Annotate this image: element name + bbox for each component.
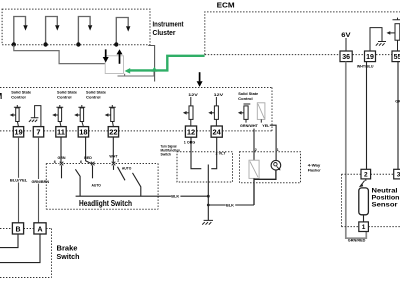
headlight switch box [46, 164, 158, 210]
svg-text:RED: RED [84, 155, 92, 160]
wire: pin11 to headlight GRN [60, 137, 62, 164]
svg-text:Control: Control [238, 96, 253, 101]
headlight switch internals [62, 165, 141, 196]
svg-text:19: 19 [14, 128, 22, 137]
svg-text:Flasher: Flasher [308, 167, 321, 172]
svg-text:12V: 12V [214, 92, 224, 97]
wire: ECM 55 to sensor 3 [397, 62, 399, 170]
ECM pin 55 [392, 51, 400, 62]
svg-text:1: 1 [277, 148, 279, 152]
wire: pin18 to headlight RED [86, 137, 92, 164]
sensor pin 1 [359, 222, 369, 232]
ground inside ECM above pin 19 [370, 28, 386, 51]
svg-text:Switch: Switch [161, 153, 172, 157]
ghost relay contact box in module [257, 103, 265, 123]
wire: 6V to pin 36 [345, 38, 347, 51]
brake pin A [34, 223, 46, 234]
svg-text:AUTO: AUTO [122, 166, 131, 171]
svg-text:GRN/RED: GRN/RED [348, 237, 366, 242]
svg-text:B: B [15, 226, 20, 233]
wire label BLK (flasher) [226, 203, 236, 208]
ground (turn signal circuit) [202, 220, 213, 224]
svg-text:18: 18 [79, 128, 87, 137]
neutral position sensor label [372, 187, 400, 208]
wire: flasher to ground junction (BLK) [208, 204, 254, 206]
svg-text:12: 12 [187, 128, 195, 137]
svg-text:19: 19 [366, 54, 374, 61]
svg-text:2: 2 [255, 148, 257, 152]
sensor variable arrow [359, 179, 366, 187]
svg-text:2: 2 [364, 172, 368, 179]
module pin 18 [78, 127, 88, 137]
node: BLK junction [207, 204, 210, 207]
ECM pin 19 [365, 51, 376, 62]
headlight pin x RED [91, 162, 95, 166]
svg-text:55: 55 [394, 54, 400, 61]
node: cluster junction 4 [114, 42, 118, 46]
svg-text:6: 6 [80, 160, 82, 164]
svg-text:YEL: YEL [262, 123, 269, 128]
svg-text:BLU/YEL: BLU/YEL [10, 178, 28, 183]
arrow: down into connector [103, 49, 109, 62]
svg-text:A: A [37, 226, 42, 233]
svg-text:6: 6 [54, 160, 56, 164]
neutral position sensor box [342, 174, 400, 226]
wire: pin19 to brake B (BLU/YEL) [18, 137, 20, 223]
module (BCM) box [0, 88, 272, 131]
turn signal switch pole [207, 165, 209, 197]
solid state control symbol above pin 22 [105, 105, 116, 127]
wire: ECM 36 to sensor 1 (GRN/RED) [346, 62, 367, 239]
module pin 12 [185, 126, 196, 137]
6V supply label [341, 33, 350, 39]
svg-text:Sensor: Sensor [372, 202, 398, 209]
svg-text:1: 1 [362, 224, 366, 231]
wire: gray return to green junction [118, 71, 155, 77]
turn signal multifunction switch label [161, 144, 181, 156]
module pin 11 [56, 127, 66, 137]
solid state control inside ECM above pin 55 [387, 18, 400, 51]
sensor resistive element [359, 188, 369, 222]
arrow: green left arrowhead [125, 68, 131, 74]
ECM box [205, 12, 400, 55]
node: cluster junction 1 [12, 42, 16, 46]
4-way flasher box [240, 152, 301, 183]
svg-text:Neutral: Neutral [372, 187, 398, 194]
ECM pin 36 [340, 51, 352, 62]
turn signal multifunction switch box [177, 152, 233, 182]
brake switch label [57, 245, 80, 260]
brake pin B [12, 223, 23, 234]
svg-text:M: M [0, 92, 3, 101]
arrow: down into module [197, 72, 203, 87]
arrow: up out of connector [117, 49, 123, 64]
svg-text:Control: Control [86, 94, 101, 99]
solid state control label 3 [86, 89, 107, 99]
svg-text:ECM: ECM [217, 1, 235, 10]
12V source symbol above pin 12 [183, 97, 193, 127]
solid state control symbol (flasher driver) [238, 104, 250, 123]
wire: stepped from cluster junction 1 [14, 45, 105, 64]
connector outline box (ghost) [105, 56, 123, 74]
svg-text:Switch: Switch [57, 254, 80, 261]
wire: pin7 to brake A (GRN/BRN) [38, 137, 40, 223]
solid state control symbol above pin 18 [74, 105, 85, 127]
arrow: green up arrowhead mid [151, 67, 157, 72]
instrument cluster label [153, 21, 185, 37]
module pin 22 [108, 127, 118, 137]
ground symbol above pin 7 [29, 106, 41, 127]
indicator lamp L1 [14, 17, 28, 45]
svg-text:2: 2 [117, 159, 119, 163]
node: cluster junction 3 [76, 42, 80, 46]
node: cluster junction 2 [43, 42, 47, 46]
wire: cluster corner down to green junction [148, 46, 154, 82]
wire: green to ECM [128, 56, 205, 71]
svg-text:GRN: GRN [58, 155, 66, 160]
indicator lamp L3 [78, 17, 92, 45]
svg-text:Position: Position [372, 194, 400, 201]
svg-text:AUTO: AUTO [92, 183, 101, 188]
svg-text:WHT: WHT [109, 153, 118, 158]
instrument cluster box [2, 9, 150, 45]
wire: module YEL to flasher pin1 [270, 125, 276, 160]
node: bus junction [207, 195, 210, 198]
svg-text:BLK: BLK [226, 203, 234, 208]
wire: pin12 to turn signal switch [191, 137, 201, 169]
svg-text:Headlight Switch: Headlight Switch [79, 198, 132, 208]
svg-text:GRN/WHT: GRN/WHT [240, 123, 258, 128]
solid state control label 4 [238, 91, 259, 101]
ECM label [217, 1, 235, 10]
wire: brake A internal [0, 234, 40, 263]
sensor pin 3 [394, 169, 400, 179]
svg-text:Control: Control [11, 94, 26, 99]
indicator lamp L2 [46, 17, 60, 45]
4-way flasher label [308, 163, 321, 173]
solid state control symbol above pin 11 [52, 105, 63, 127]
solid state control label 2 [57, 89, 78, 99]
wire: module to flasher pin2 [253, 129, 255, 161]
wire: headlight bus to BLK junction [76, 195, 209, 197]
module pin 19 [13, 127, 23, 137]
svg-text:Cluster: Cluster [153, 30, 176, 37]
wire: ECM 19 to sensor 2 [366, 62, 368, 170]
svg-text:Instrument: Instrument [153, 21, 185, 28]
solid state control symbol above pin 19 [10, 105, 21, 127]
svg-text:GRN/: GRN/ [395, 99, 400, 104]
svg-text:24: 24 [213, 128, 222, 137]
wire: pin22 to headlight WHT [112, 137, 114, 164]
solid state control label 1 [11, 89, 32, 99]
sensor pin 2 [361, 169, 371, 179]
headlight pin x GRN [60, 162, 64, 166]
module pin 24 [211, 126, 222, 137]
svg-text:11: 11 [57, 128, 65, 137]
wire: brake B internal [0, 234, 18, 248]
brake switch box [0, 229, 52, 278]
svg-text:Brake: Brake [57, 245, 78, 252]
svg-text:22: 22 [109, 128, 117, 137]
flasher lamp [271, 160, 281, 170]
svg-text:12V: 12V [188, 92, 198, 97]
indicator lamp L4 [116, 18, 130, 45]
headlight pin x WHT [112, 162, 116, 166]
module pin 7 [33, 127, 43, 137]
svg-text:Control: Control [57, 94, 72, 99]
wire: pin24 to turn signal switch [211, 137, 216, 169]
flasher relay contact [249, 160, 259, 178]
wire label GRN/BRN [31, 179, 50, 184]
svg-text:WHT/BLU: WHT/BLU [357, 64, 374, 69]
wire: pole to ground [207, 196, 209, 220]
svg-text:1 ORG: 1 ORG [184, 139, 196, 144]
svg-text:7: 7 [36, 128, 40, 137]
wire label BLK (headlight) [171, 194, 181, 199]
12V source symbol above pin 24 [208, 97, 218, 127]
svg-text:BLK: BLK [171, 194, 179, 199]
wire: flasher bottom bus [254, 170, 276, 205]
svg-text:36: 36 [342, 54, 350, 61]
wire label BLU/YEL [10, 178, 28, 183]
